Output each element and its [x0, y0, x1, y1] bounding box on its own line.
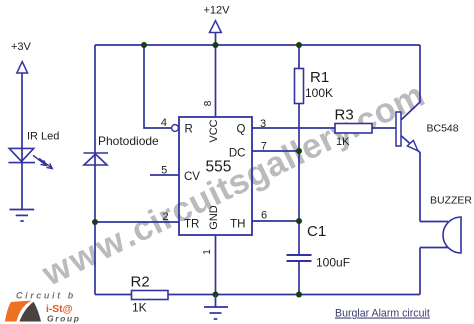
svg-text:Q: Q — [237, 124, 246, 136]
svg-text:BUZZER: BUZZER — [430, 195, 472, 207]
svg-text:1K: 1K — [132, 301, 147, 315]
svg-text:2: 2 — [162, 211, 168, 223]
svg-text:VCC: VCC — [208, 119, 220, 142]
svg-text:R2: R2 — [131, 274, 150, 291]
svg-text:555: 555 — [206, 159, 232, 176]
svg-text:+3V: +3V — [11, 41, 32, 53]
svg-text:Photodiode: Photodiode — [98, 134, 159, 148]
svg-text:R3: R3 — [335, 107, 354, 124]
svg-text:8: 8 — [203, 100, 214, 106]
svg-text:100K: 100K — [305, 86, 333, 100]
svg-text:BC548: BC548 — [427, 123, 459, 135]
svg-text:TR: TR — [184, 219, 199, 231]
svg-text:TH: TH — [230, 219, 245, 231]
svg-text:6: 6 — [261, 210, 267, 222]
svg-text:Burglar Alarm circuit: Burglar Alarm circuit — [335, 308, 430, 320]
svg-text:100uF: 100uF — [316, 256, 350, 270]
svg-text:GND: GND — [208, 205, 220, 230]
svg-text:4: 4 — [161, 117, 167, 129]
svg-text:R: R — [185, 124, 193, 136]
svg-text:+12V: +12V — [204, 5, 231, 17]
svg-text:IR Led: IR Led — [27, 131, 59, 143]
svg-text:5: 5 — [161, 165, 167, 177]
svg-text:7: 7 — [261, 141, 267, 153]
svg-text:R1: R1 — [310, 69, 329, 86]
svg-text:Group: Group — [47, 314, 81, 324]
svg-text:Circuit b: Circuit b — [16, 291, 76, 301]
svg-text:1K: 1K — [336, 136, 350, 148]
svg-text:3: 3 — [260, 118, 266, 130]
svg-text:CV: CV — [184, 171, 200, 183]
svg-text:C1: C1 — [307, 223, 326, 240]
svg-text:1: 1 — [202, 249, 213, 255]
